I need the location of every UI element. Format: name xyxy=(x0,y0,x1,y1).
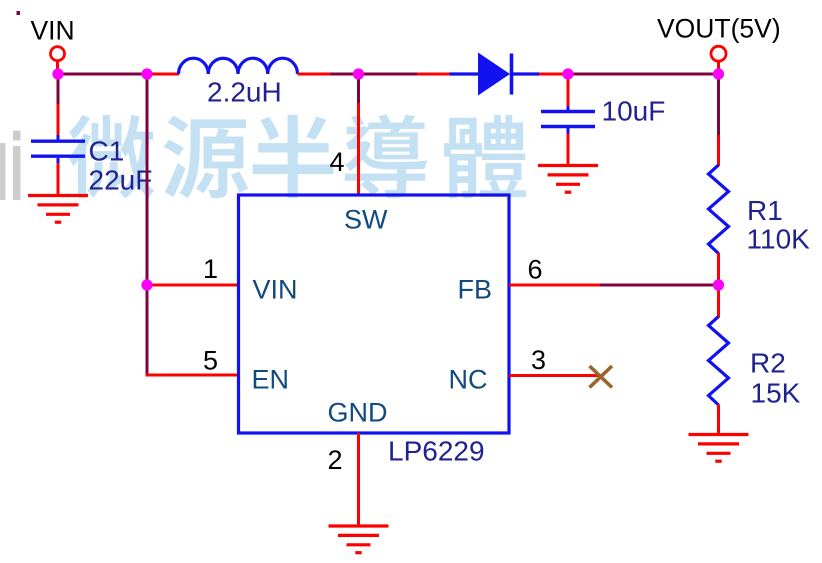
wire inductor to SW node (red then maroon) xyxy=(298,73,359,76)
junction VOUT node xyxy=(713,68,724,79)
wire diode to C2 node (red) xyxy=(539,73,568,76)
stray mark top-left xyxy=(17,11,21,15)
svg-text:5: 5 xyxy=(203,346,218,376)
wire L1 node to inductor (red) xyxy=(145,73,179,76)
svg-text:SW: SW xyxy=(344,205,388,235)
svg-text:FB: FB xyxy=(458,275,493,305)
svg-text:15K: 15K xyxy=(751,378,801,409)
svg-text:LP6229: LP6229 xyxy=(388,436,485,467)
ground for R2 xyxy=(689,435,749,462)
wire VIN node down to C1 xyxy=(57,74,60,136)
capacitor C2 10uF xyxy=(541,106,595,164)
svg-text:10uF: 10uF xyxy=(602,96,666,127)
junction feedback node xyxy=(713,279,724,290)
svg-text:2: 2 xyxy=(328,445,343,475)
wire R2 to ground xyxy=(717,405,720,435)
wire feedback node down to R2 xyxy=(717,285,720,318)
svg-text:VOUT(5V): VOUT(5V) xyxy=(657,14,781,44)
ground for C2 xyxy=(538,166,598,193)
svg-text:R1: R1 xyxy=(747,195,783,226)
wire L1 node down to EN (maroon) xyxy=(146,74,149,377)
ground for U1 GND pin xyxy=(329,526,389,553)
junction C2 node xyxy=(562,68,573,79)
svg-text:3: 3 xyxy=(531,345,546,375)
svg-text:R2: R2 xyxy=(750,348,786,379)
wire top rail: VIN node to L1 node (maroon) xyxy=(58,73,147,76)
svg-text:110K: 110K xyxy=(747,224,811,255)
svg-text:NC: NC xyxy=(449,365,488,395)
svg-text:22uF: 22uF xyxy=(89,165,153,196)
node VIN terminal xyxy=(51,47,65,70)
svg-text:EN: EN xyxy=(252,365,290,395)
resistor R2 15K xyxy=(709,317,729,406)
diode D1 xyxy=(450,53,540,96)
svg-text:2.2uH: 2.2uH xyxy=(207,77,282,108)
wire pin1 VIN (red) xyxy=(146,284,239,287)
svg-text:GND: GND xyxy=(328,398,388,428)
inductor L1 2.2uH xyxy=(179,58,298,74)
junction VIN pin junction xyxy=(141,279,152,290)
svg-text:6: 6 xyxy=(528,255,543,285)
op-amp U1 LP6229 IC body xyxy=(239,195,510,433)
wire VOUT node down to R1 xyxy=(717,74,720,166)
wire pin3 NC (red) xyxy=(509,374,601,377)
wire pin6 FB to feedback node xyxy=(509,284,719,287)
resistor R1 110K xyxy=(709,165,729,254)
watermark: light blue CJK text xyxy=(69,114,526,198)
wire SW node to diode (maroon then red) xyxy=(359,73,451,76)
svg-text:VIN: VIN xyxy=(31,16,75,46)
svg-text:1: 1 xyxy=(203,254,218,284)
wire pin5 EN (red) xyxy=(146,374,239,377)
svg-text:C1: C1 xyxy=(89,136,125,167)
watermark: gray partial letters at left edge xyxy=(0,131,21,201)
node VOUT terminal xyxy=(711,46,726,70)
wire C2 node down to capacitor xyxy=(567,74,570,107)
no-connect X mark xyxy=(590,366,613,388)
svg-text:4: 4 xyxy=(330,147,345,177)
wire C2 node to VOUT node (maroon) xyxy=(568,73,719,76)
ground for C1 xyxy=(28,196,88,223)
wire pin2 GND down xyxy=(357,433,360,526)
svg-text:VIN: VIN xyxy=(253,275,298,305)
junction SW node xyxy=(353,68,364,79)
capacitor C1 22uF xyxy=(31,135,85,194)
wire SW node down to pin4 xyxy=(357,74,360,195)
junction L1 input node xyxy=(141,68,152,79)
wire R1 to feedback node xyxy=(717,253,720,285)
junction VIN node xyxy=(52,68,63,79)
